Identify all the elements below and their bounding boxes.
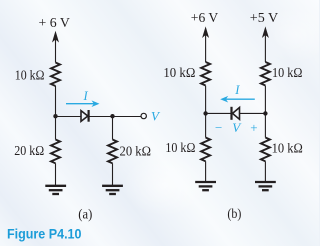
output terminal circle (a)	[141, 113, 146, 118]
node junction right (a)	[110, 114, 114, 118]
svg-text:10 kΩ: 10 kΩ	[163, 65, 195, 80]
+5V supply label (b)	[250, 10, 279, 25]
wire resistor to ground (b-left)	[205, 161, 207, 181]
svg-text:+ 6 V: + 6 V	[39, 15, 71, 30]
svg-text:V: V	[232, 120, 242, 135]
caption (b)	[227, 206, 241, 221]
resistor 10 kΩ top-right (b)	[261, 62, 270, 86]
svg-text:10 kΩ: 10 kΩ	[15, 68, 45, 83]
+6V supply label (b)	[191, 10, 219, 25]
diode voltage label − V + (b)	[215, 120, 258, 135]
wire node to lower resistor (b-left)	[205, 113, 207, 137]
svg-text:I: I	[234, 83, 240, 97]
value label 10 kΩ (a)	[15, 68, 45, 83]
wire resistor to ground (b-right)	[264, 161, 266, 181]
svg-text:+: +	[250, 120, 257, 135]
wire node to lower resistor (a-left)	[55, 117, 57, 140]
caption (a)	[78, 206, 92, 221]
wire node to lower resistor (a-right)	[112, 117, 114, 140]
wire resistor to ground (a-left)	[55, 163, 57, 185]
+6V supply arrow (b)	[202, 26, 209, 38]
svg-text:+5 V: +5 V	[250, 10, 279, 25]
svg-text:20 kΩ: 20 kΩ	[14, 143, 44, 158]
resistor 10 kΩ bottom-right (b)	[261, 138, 270, 162]
svg-text:V: V	[151, 108, 161, 123]
node junction right (b)	[263, 111, 267, 115]
ground (b-left)	[195, 182, 216, 190]
svg-text:(a): (a)	[78, 206, 92, 221]
wire left node to diode (b)	[206, 112, 231, 114]
svg-text:20 kΩ: 20 kΩ	[120, 143, 152, 158]
svg-text:10 kΩ: 10 kΩ	[272, 141, 303, 156]
wire resistor to node (a-left)	[55, 86, 57, 116]
value label 20 kΩ left (a)	[14, 143, 44, 158]
value label 10 kΩ bottom-left (b)	[165, 140, 195, 155]
output label V (a)	[151, 108, 161, 123]
current arrow I (b), pointing left	[220, 83, 255, 103]
wire resistor to node (b-left)	[205, 86, 207, 114]
svg-text:10 kΩ: 10 kΩ	[165, 140, 195, 155]
value label 10 kΩ top-right (b)	[272, 65, 303, 80]
+6V supply label (a)	[39, 15, 71, 30]
value label 10 kΩ bottom-right (b)	[272, 141, 303, 156]
wire node to output terminal (a)	[113, 116, 141, 118]
+6V supply arrow (a)	[52, 31, 59, 43]
resistor 10 kΩ bottom-left (b)	[201, 138, 210, 162]
ground (a-left)	[45, 186, 66, 194]
svg-text:(b): (b)	[227, 206, 241, 221]
wire node to lower resistor (b-right)	[264, 113, 266, 137]
value label 10 kΩ top-left (b)	[163, 65, 195, 80]
resistor 10 kΩ top-left (b)	[201, 62, 210, 86]
wire resistor to ground (a-right)	[112, 163, 114, 185]
diode D (a), pointing right, hollow	[81, 111, 88, 122]
resistor R 20 kΩ right (a)	[108, 140, 117, 164]
figure caption Figure P4.10	[7, 226, 82, 242]
resistor R 20 kΩ left (a)	[51, 140, 60, 164]
svg-text:−: −	[215, 120, 222, 135]
wire diode to node (a)	[90, 116, 113, 118]
wire diode to right node (b)	[240, 112, 266, 114]
value label 20 kΩ right (a)	[120, 143, 152, 158]
wire node to diode (a)	[56, 116, 82, 118]
ground (a-right)	[102, 186, 123, 194]
node junction left (a)	[53, 114, 57, 118]
+5V supply arrow (b)	[262, 26, 269, 38]
node junction left (b)	[203, 111, 207, 115]
current arrow I (a)	[66, 89, 100, 107]
ground (b-right)	[255, 182, 276, 190]
svg-text:Figure P4.10: Figure P4.10	[7, 226, 82, 242]
svg-text:I: I	[83, 89, 89, 103]
resistor R 10 kΩ (a)	[51, 63, 60, 87]
svg-text:+6 V: +6 V	[191, 10, 219, 25]
svg-text:10 kΩ: 10 kΩ	[272, 65, 303, 80]
diode D (b), pointing left, hollow	[230, 107, 232, 120]
wire resistor to node (b-right)	[264, 86, 266, 114]
